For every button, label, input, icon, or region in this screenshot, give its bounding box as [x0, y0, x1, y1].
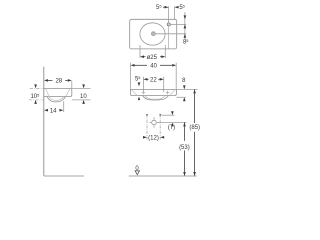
dim (85) line	[194, 89, 196, 123]
vertical dim line right of top view	[184, 12, 186, 39]
bottom ref line left of wall	[29, 99, 44, 101]
dim 10 right	[82, 84, 85, 88]
rim dash-dot left	[30, 87, 44, 89]
drain (top view)	[152, 32, 156, 36]
interior arc side	[46, 89, 70, 97]
siphon space dash-dot line right	[159, 115, 161, 140]
interior arc front	[132, 90, 175, 95]
dim o25 bowl diameter	[139, 45, 141, 58]
leader from tap hole	[171, 23, 187, 25]
dim 28 extension right up	[71, 81, 73, 88]
basin front outline	[130, 89, 176, 95]
dim 14 extension from bowl centre down	[63, 101, 65, 112]
dim 22	[143, 78, 147, 81]
dim arrow right pointing left at right edge line, right label 5.5	[175, 6, 179, 9]
svg-text:(53): (53)	[179, 145, 190, 151]
leader from drain center	[156, 33, 187, 35]
svg-text:(85): (85)	[189, 125, 200, 131]
dim (53) bottom arrow	[183, 172, 186, 176]
dim (7) arrow down	[171, 111, 174, 115]
drain symbol tick bottom	[153, 126, 155, 128]
svg-text:40: 40	[150, 64, 157, 70]
extension line tap hole up	[168, 6, 170, 22]
siphon space dash-dot line left	[146, 115, 148, 140]
rim extension right (side)	[72, 87, 91, 89]
arrow up to underside left	[138, 97, 140, 101]
wall line	[43, 67, 45, 176]
end dot right	[159, 114, 161, 116]
dim (85) top arrow	[193, 89, 196, 93]
dim 28	[44, 79, 48, 82]
arrow down to rim top	[138, 82, 141, 86]
svg-text:55: 55	[179, 4, 185, 12]
side profile outline	[44, 88, 72, 96]
extension line right edge up	[174, 6, 176, 19]
tap bench edge line	[168, 20, 170, 49]
fixing hole cross right	[166, 91, 169, 94]
dim (85) bottom arrow	[193, 172, 196, 176]
svg-text:105: 105	[30, 92, 39, 100]
bowl circle	[140, 23, 165, 45]
rim bottom extension right	[176, 96, 185, 98]
reference line (7) top	[161, 114, 174, 116]
inner bulge side	[49, 97, 64, 101]
extension lines 22	[142, 77, 144, 92]
svg-text:14: 14	[50, 108, 57, 114]
svg-text:28: 28	[55, 79, 62, 85]
level marker triangle	[135, 171, 139, 175]
svg-text:8: 8	[182, 78, 186, 84]
dim 40	[131, 64, 135, 67]
end dot left	[146, 114, 148, 116]
drain symbol tick top	[153, 117, 155, 119]
svg-text:ø25: ø25	[147, 55, 158, 61]
drain symbol tick left	[150, 122, 152, 124]
tap hole	[167, 23, 170, 26]
floor line right (front view)	[129, 175, 197, 177]
dim (53) line	[184, 122, 186, 140]
drain outlet symbol circle	[152, 120, 157, 125]
svg-text:10: 10	[80, 94, 87, 100]
floor line left (side view)	[44, 175, 84, 177]
svg-text:55: 55	[135, 75, 141, 83]
bowl bulge front	[143, 96, 169, 101]
fixing hole cross left	[142, 91, 145, 94]
svg-text:85: 85	[183, 38, 189, 46]
inner bulge line front	[145, 96, 165, 100]
bowl bulge side	[47, 97, 65, 102]
extension lines width 40	[130, 63, 132, 89]
drain symbol tick right	[157, 122, 159, 124]
dim (53) top arrow	[183, 122, 186, 126]
dim (12) arrow left	[160, 136, 164, 139]
svg-text:(12): (12)	[148, 136, 159, 142]
bottom ref line right (side)	[72, 99, 91, 101]
basin outline (top view)	[130, 19, 177, 49]
svg-text:55: 55	[156, 4, 162, 12]
dim (12) arrow right	[143, 136, 147, 139]
dim (7) arrow up	[171, 122, 174, 126]
dim 14	[44, 109, 48, 112]
pipe centreline to right	[159, 122, 187, 124]
dim 10.5 left	[34, 84, 37, 88]
rim top extension right	[176, 88, 197, 90]
svg-text:22: 22	[150, 78, 157, 84]
svg-text:(7): (7)	[168, 125, 175, 131]
